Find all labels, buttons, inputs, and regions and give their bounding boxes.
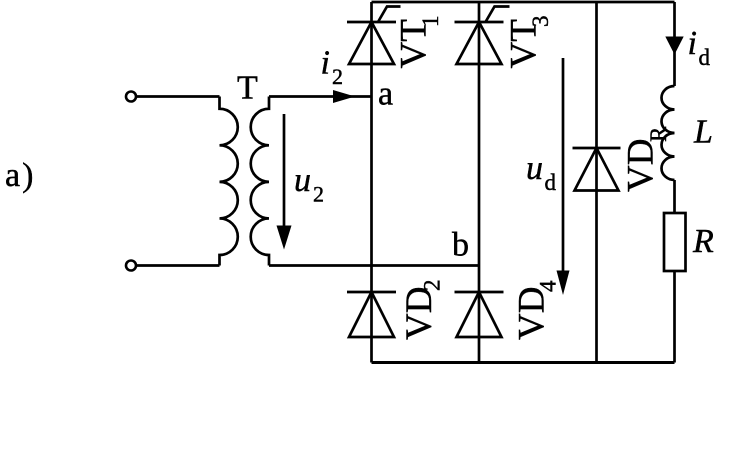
second rail [478,2,481,363]
diode VDR triangle [575,148,619,191]
svg-text:i: i [688,25,697,62]
svg-text:1: 1 [418,16,443,28]
diode VD2 triangle [349,292,394,337]
svg-text:VD: VD [621,139,662,192]
wire secondary bottom to node b [269,264,479,267]
svg-text:R: R [646,126,671,142]
arrow ud line [562,58,565,275]
diode VD2 cathode bar [347,291,396,294]
transformer T primary winding [220,97,238,266]
right rail mid segment [673,180,676,213]
svg-text:4: 4 [536,280,561,292]
svg-text:2: 2 [313,182,324,207]
svg-text:u: u [526,150,543,187]
svg-text:a): a) [5,157,33,194]
svg-text:VD: VD [399,287,440,340]
resistor R [664,213,686,271]
diode VD4 cathode bar [455,291,504,294]
arrow i2 head [333,90,355,103]
wire bottom-left to primary [137,264,220,267]
diode VD4 triangle [457,292,502,337]
arrow id head [665,37,683,55]
right rail top segment [673,2,676,86]
terminal top-left [126,92,136,102]
diode VDR cathode bar [573,147,621,150]
svg-text:T: T [237,70,258,107]
bottom bus [372,361,675,364]
svg-text:u: u [294,162,311,199]
svg-text:b: b [452,227,469,264]
thyristor VT1 gate [378,7,401,23]
thyristor VT1 cathode bar [347,21,396,24]
wire top-left to primary [137,95,220,98]
arrow u2 head [277,226,292,250]
svg-text:L: L [693,114,713,151]
svg-text:3: 3 [528,16,553,28]
svg-text:2: 2 [420,280,445,292]
svg-text:R: R [692,223,714,260]
freewheel rail [595,2,598,363]
transformer secondary winding [251,97,269,266]
terminal bottom-left [126,261,136,271]
thyristor VT1 triangle [349,22,394,64]
top bus [372,1,675,4]
arrow ud head [557,271,570,296]
wire secondary top to node a [269,95,372,98]
svg-text:a: a [378,76,393,113]
thyristor VT3 cathode bar [455,21,504,24]
left rail [370,2,373,363]
svg-text:d: d [699,45,711,70]
thyristor VT3 gate [486,7,510,23]
inductor L [662,86,675,180]
right rail bottom segment [673,271,676,363]
arrow u2 line [283,114,286,232]
svg-text:2: 2 [332,64,343,89]
svg-text:VD: VD [512,287,553,340]
svg-text:d: d [545,170,557,195]
svg-text:i: i [321,45,330,82]
thyristor VT3 triangle [457,22,502,64]
